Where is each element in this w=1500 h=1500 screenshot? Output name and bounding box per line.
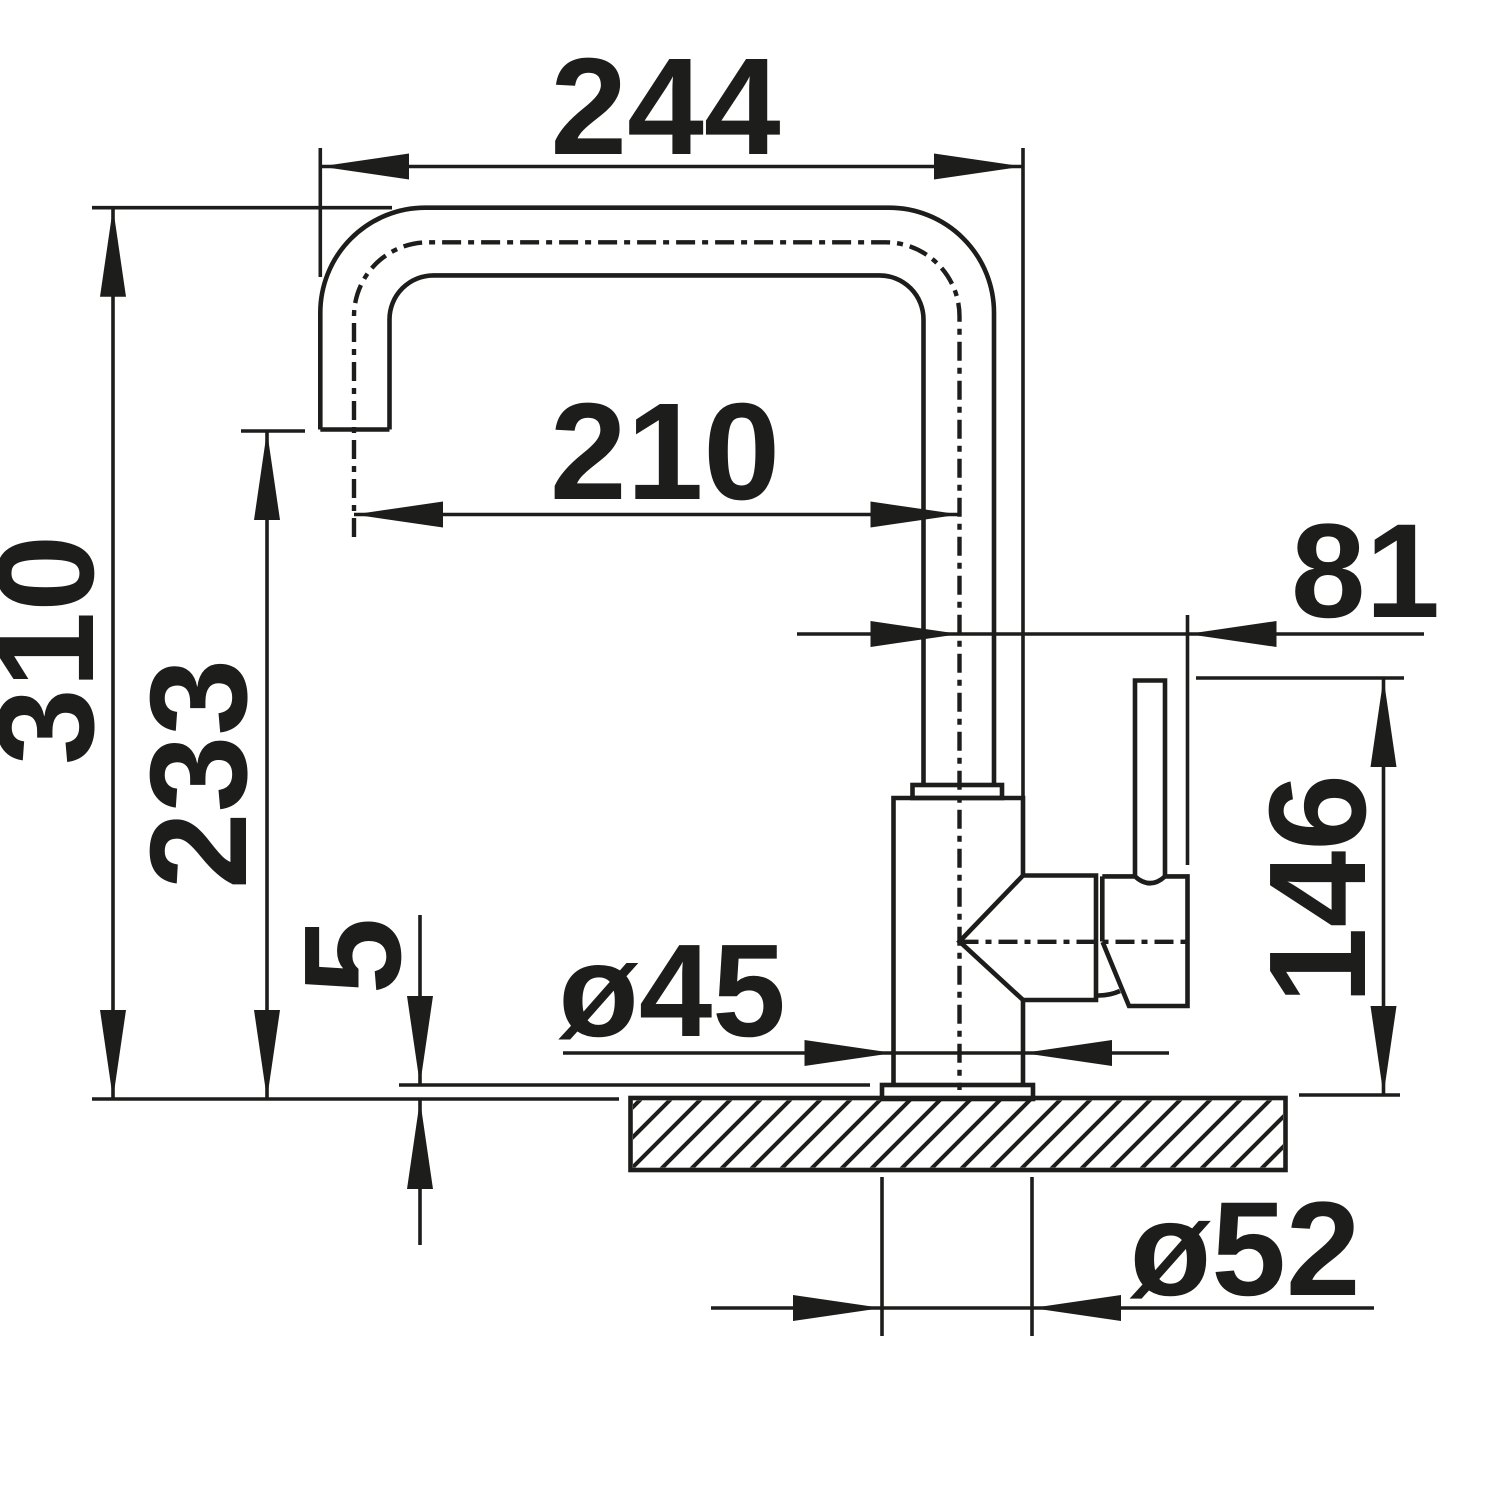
handle lever bar bbox=[1135, 681, 1165, 879]
faucet body bbox=[894, 798, 1024, 1085]
svg-text:146: 146 bbox=[1241, 774, 1395, 1004]
countertop section block bbox=[631, 1098, 1286, 1170]
spout outlet opening bbox=[320, 427, 389, 432]
svg-text:ø52: ø52 bbox=[1130, 1175, 1361, 1324]
handle base block bbox=[1102, 876, 1187, 1006]
arrowheads dia45 bbox=[805, 1040, 894, 1066]
valve housing pentagon bbox=[960, 876, 1097, 1001]
countertop hatch lines bbox=[570, 1098, 1332, 1170]
valve centerline (dash-dot) bbox=[960, 940, 1187, 944]
arrowheads 233 bbox=[254, 431, 280, 520]
base flange plate bbox=[882, 1085, 1033, 1099]
dimension 5 lines bbox=[399, 915, 870, 1245]
svg-text:81: 81 bbox=[1291, 497, 1440, 646]
dimension 310 lines bbox=[92, 208, 392, 1099]
dimension dia45 line bbox=[563, 1051, 1169, 1055]
arrowheads dia52 bbox=[793, 1295, 882, 1321]
dimension 210 line bbox=[354, 513, 960, 517]
collar between spout and body bbox=[913, 785, 1003, 798]
svg-text:310: 310 bbox=[0, 535, 123, 765]
arrowheads 210 bbox=[354, 502, 443, 528]
svg-text:233: 233 bbox=[122, 659, 276, 889]
arrowheads 310 bbox=[100, 208, 126, 297]
arrowheads 81 bbox=[871, 621, 960, 647]
handle pivot arc bbox=[1098, 991, 1121, 996]
svg-text:244: 244 bbox=[550, 30, 780, 184]
svg-text:ø45: ø45 bbox=[558, 917, 785, 1064]
dimension 81 lines bbox=[797, 615, 1424, 865]
arrowheads 5 bbox=[407, 996, 433, 1085]
dimension 146 lines bbox=[1196, 678, 1404, 1095]
spout centerline (dash-dot) bbox=[354, 242, 960, 1090]
dimension dia52 lines bbox=[711, 1177, 1374, 1336]
arrowheads 244 bbox=[320, 154, 409, 180]
countertop surface line bbox=[92, 1097, 619, 1101]
dimension 233 lines bbox=[241, 431, 305, 1099]
dimension 244 lines bbox=[320, 148, 1023, 800]
arrowheads 146 bbox=[1371, 678, 1397, 767]
faucet spout inner contour bbox=[390, 275, 924, 785]
svg-text:5: 5 bbox=[276, 918, 430, 995]
svg-text:210: 210 bbox=[550, 375, 780, 529]
faucet spout outer contour bbox=[320, 208, 994, 785]
